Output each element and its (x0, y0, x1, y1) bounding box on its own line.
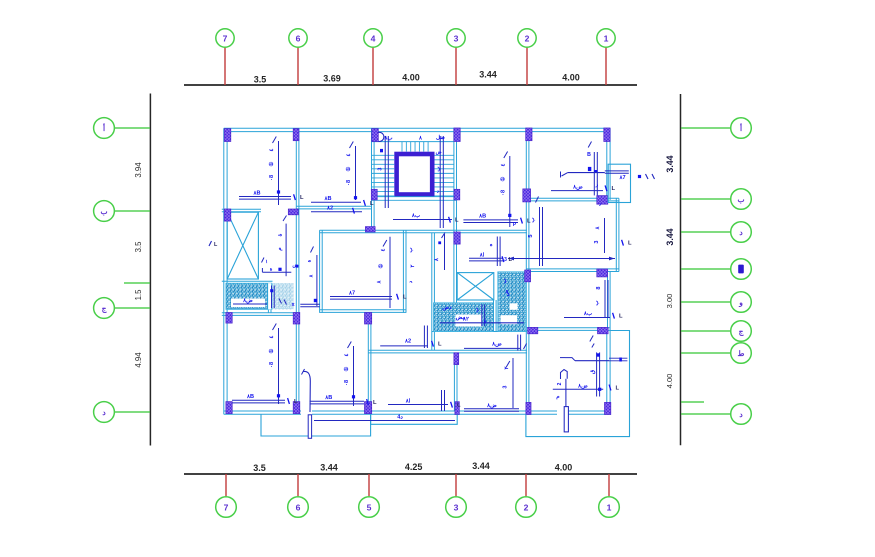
svg-text:۸ب: ۸ب (383, 136, 393, 142)
svg-text:م: م (556, 394, 560, 400)
svg-text:L: L (438, 342, 442, 348)
column C2 top (526, 128, 532, 141)
grid bubble 1 (bottom) (599, 497, 620, 518)
mid-right room bottom wall (527, 268, 619, 270)
annotation room bottom-mid2 (441, 390, 443, 411)
column stair mid-right (454, 189, 460, 200)
svg-text:ض: ض (504, 289, 510, 296)
annotation below-stair strip (311, 211, 362, 213)
svg-text:4: 4 (371, 33, 376, 43)
svg-text:٤: ٤ (381, 248, 387, 251)
svg-text:۸B: ۸B (324, 395, 332, 401)
hatched area right of shaft (498, 272, 526, 332)
svg-text:3: 3 (594, 240, 600, 243)
annotation bottom-right room (575, 360, 609, 362)
door leaf right balcony (564, 407, 568, 432)
svg-text:۸ب: ۸ب (411, 213, 421, 219)
red axis tick 7 (bottom) (225, 474, 227, 496)
green axis tick (right) (681, 268, 731, 270)
column C7 bottom (226, 402, 232, 414)
svg-text:3.44: 3.44 (479, 70, 497, 80)
svg-text:و: و (738, 298, 743, 308)
svg-text:3.44: 3.44 (320, 463, 338, 473)
grid bubble 6 (top) (289, 29, 307, 47)
annotation balcony top-right railing (605, 170, 629, 172)
grid bubble (right) (731, 292, 752, 313)
svg-text:L: L (619, 314, 623, 320)
svg-text:3: 3 (504, 257, 507, 263)
column C1 bottom (605, 402, 611, 414)
kitchen white inset left (456, 315, 483, 327)
bathroom divider band (268, 283, 272, 309)
central room bottom wall (320, 309, 406, 311)
bottom axis line (184, 473, 637, 475)
interior wall x456 lower (453, 353, 455, 412)
interior wall x369 lower (367, 313, 369, 415)
red axis tick 6 (top) (297, 48, 299, 86)
stair dim line right pair (439, 136, 441, 228)
annotation right room y271-328 (604, 280, 606, 317)
kitchen wall x433 (431, 233, 433, 350)
svg-text:L: L (612, 186, 616, 192)
annotation middle balcony dim (314, 420, 455, 422)
room TR1 slash (504, 152, 508, 159)
outside ticks left (209, 241, 212, 246)
annotation marks outside right (638, 175, 641, 178)
central room left wall (319, 230, 321, 313)
grid bubble 3 (top) (447, 29, 465, 47)
svg-text:١: ١ (265, 259, 268, 265)
svg-text:۸2: ۸2 (404, 339, 411, 345)
svg-text:٤: ٤ (344, 353, 350, 356)
short green tick (left, 1.5 level) (124, 282, 150, 284)
green axis tick (right) (681, 231, 731, 233)
room TL dim horizontal (239, 196, 291, 198)
svg-text:5: 5 (528, 234, 534, 237)
svg-text:ب: ب (100, 207, 108, 216)
svg-text:ض: ض (436, 150, 442, 156)
svg-text:ب: ب (474, 307, 480, 313)
svg-text:2: 2 (525, 33, 530, 43)
svg-text:3.69: 3.69 (323, 74, 341, 84)
room BM dim horizontal (310, 400, 365, 402)
room BM dim vertical (353, 346, 355, 406)
envelope right wall upper (606, 128, 608, 200)
svg-text:4د: 4د (397, 415, 403, 421)
envelope right wall lower (606, 331, 608, 415)
svg-text:۸ض: ۸ض (577, 383, 588, 389)
annotation hall below stair (496, 237, 498, 267)
svg-text:L: L (509, 257, 513, 263)
balcony top-right outline (608, 164, 630, 202)
room TM slash (350, 142, 354, 149)
stair entry circle (375, 132, 384, 141)
svg-text:ة: ة (278, 233, 284, 236)
annotation strip room y332-351 (464, 347, 520, 349)
svg-text:۸7: ۸7 (618, 175, 625, 181)
column C2 bottom (526, 402, 531, 414)
svg-text:1.5: 1.5 (134, 289, 143, 301)
svg-text:1: 1 (607, 503, 612, 513)
svg-text:3: 3 (378, 167, 384, 170)
red axis tick 3 (bottom) (455, 474, 457, 496)
grid bubble (left) (94, 118, 115, 139)
grid bubble (right) (731, 189, 752, 210)
svg-text:٠8: ٠8 (346, 180, 352, 186)
grid bubble (right) (731, 404, 752, 425)
annotation central room (389, 237, 391, 308)
annotation room bottom-3 (512, 358, 514, 408)
annotation corridor x296 (316, 255, 318, 306)
room BL dim horizontal (232, 399, 285, 401)
left section wall y313 (222, 312, 300, 314)
column C2 y328 (528, 327, 538, 333)
column C6 top (293, 129, 299, 141)
svg-text:B: B (587, 152, 591, 158)
column stair bottom-left (365, 227, 375, 232)
central room right wall (402, 230, 404, 313)
stair right wall x456 (453, 128, 455, 308)
room TM dim horizontal (311, 201, 361, 203)
interior wall x527 vertical (525, 128, 527, 414)
short green tick (right) (681, 401, 704, 403)
green axis tick (right) (681, 198, 731, 200)
column C5 bottom (365, 402, 372, 414)
annotation corridor strip x435-454 (444, 234, 446, 270)
svg-text:4.94: 4.94 (134, 352, 143, 368)
elevator shaft wall (397, 154, 433, 195)
svg-text:3.00: 3.00 (665, 294, 674, 309)
svg-text:2: 2 (524, 503, 529, 513)
top axis line (184, 84, 637, 86)
svg-text:م: م (277, 247, 283, 251)
svg-text:ب: ب (502, 278, 508, 284)
column C2 y270 (525, 270, 531, 282)
svg-text:3.5: 3.5 (134, 241, 143, 253)
red axis tick 4 (top) (372, 48, 374, 86)
envelope left wall (223, 128, 225, 414)
column C2 mid (523, 189, 531, 202)
svg-text:3.94: 3.94 (134, 162, 143, 178)
column C1 y199 (597, 196, 608, 205)
svg-text:۸7: ۸7 (348, 291, 355, 297)
room BL end ticks (288, 398, 290, 404)
bottom-right room top wall (526, 327, 610, 329)
stair treads right run (435, 154, 454, 156)
envelope top wall (224, 127, 610, 129)
column C6 y209 (288, 209, 298, 215)
svg-text:دض: دض (442, 305, 452, 311)
column C6 y313 (293, 313, 300, 325)
column stair top-left (372, 129, 379, 142)
red axis tick 7 (top) (224, 48, 226, 86)
svg-text:3.5: 3.5 (253, 463, 266, 473)
column C6 bottom (293, 402, 300, 414)
green axis tick (right) (681, 330, 731, 332)
stair left wall x373 (371, 128, 373, 232)
stair landing line top (372, 141, 454, 143)
room TR1 dim horizontal (463, 219, 518, 221)
kitchen divider wall x495 (493, 300, 495, 332)
X-braced shaft center (457, 273, 494, 300)
svg-text:ب: ب (436, 166, 442, 172)
hatch room divider x270 (267, 283, 269, 313)
grid bubble (left) (94, 201, 115, 222)
svg-text:۸ض: ۸ض (572, 185, 583, 191)
annotation bathroom bottom-left (233, 303, 267, 305)
balcony bottom-middle outline (371, 415, 458, 425)
svg-text:L: L (294, 399, 298, 405)
green axis tick (left) (115, 210, 151, 212)
svg-text:٠8: ٠8 (269, 362, 275, 368)
kitchen dim line (440, 322, 524, 324)
green axis tick (left) (115, 127, 151, 129)
column C7 y209 (224, 209, 231, 221)
kitchen vertical dim pair (481, 304, 483, 326)
top-left room bottom wall (222, 208, 261, 210)
svg-text:ة: ة (307, 259, 313, 262)
grid bubble 2 (top) (518, 29, 536, 47)
svg-text:4.25: 4.25 (405, 462, 423, 472)
column C7 y313 (226, 313, 232, 324)
green axis tick (right) (681, 127, 731, 129)
room TM end ticks (364, 200, 366, 206)
room BM slash (348, 342, 352, 349)
door swing bottom-middle room (304, 371, 311, 412)
svg-text:3: 3 (454, 33, 459, 43)
grid bubble (right) (731, 343, 752, 364)
right axis line (680, 94, 682, 445)
red axis tick 2 (bottom) (525, 474, 527, 496)
svg-text:٠8: ٠8 (344, 380, 350, 386)
column C1 top (604, 128, 610, 142)
svg-text:ب: ب (530, 217, 536, 223)
interior wall x298 vertical (295, 128, 297, 414)
X-braced shaft left (227, 212, 258, 279)
svg-text:۸: ۸ (308, 274, 314, 278)
column C3 y232 (454, 232, 460, 244)
column stair mid-left (371, 189, 377, 200)
annotation left corridor room (285, 224, 287, 277)
svg-text:بض: بض (456, 315, 465, 321)
svg-text:ضل: ضل (436, 134, 445, 141)
column C5 y313 (365, 313, 372, 325)
column C3 y353 (454, 353, 459, 365)
svg-text:6: 6 (296, 33, 301, 43)
svg-text:ر: ر (595, 182, 599, 188)
svg-text:3.44: 3.44 (665, 155, 675, 172)
hatched bathroom bottom-left (226, 283, 272, 309)
svg-text:۸ا: ۸ا (479, 252, 485, 259)
red axis tick 6 (bottom) (297, 474, 299, 496)
green axis tick (right) (681, 352, 731, 354)
svg-text:۸ا: ۸ا (405, 398, 411, 405)
grid bubble 3 (bottom) (446, 497, 467, 518)
svg-text:L: L (403, 295, 407, 301)
green axis tick (left) (115, 307, 151, 309)
svg-text:۸B: ۸B (246, 394, 254, 400)
red axis tick 5 (bottom) (368, 474, 370, 496)
svg-text:2: 2 (557, 382, 563, 385)
svg-text:۸2: ۸2 (326, 206, 333, 212)
svg-text:۸ض: ۸ض (242, 298, 253, 304)
svg-text:٤: ٤ (500, 163, 506, 166)
room TL dim vertical (278, 141, 280, 205)
grid bubble (right) (731, 222, 752, 243)
green axis tick (right) (681, 301, 731, 303)
svg-text:L: L (300, 195, 304, 201)
door gap bottom-right room (557, 410, 568, 415)
balcony right wrap outline (526, 331, 630, 437)
column C1 y269 (597, 269, 608, 277)
svg-text:ض: ض (292, 264, 298, 269)
svg-text:7: 7 (223, 33, 228, 43)
svg-text:۸B: ۸B (252, 190, 260, 196)
svg-text:ب: ب (594, 300, 600, 306)
grid bubble 5 (bottom) (359, 497, 380, 518)
svg-text:۸ض: ۸ض (491, 342, 502, 348)
room TR1 end ticks (521, 218, 523, 224)
svg-text:L: L (616, 385, 620, 391)
room TL slash (273, 137, 277, 144)
annotation room x371-433 y313-351 (380, 345, 428, 347)
svg-text:L: L (457, 403, 461, 409)
column C1 y328 (598, 327, 609, 333)
svg-text:٤: ٤ (269, 148, 275, 151)
annotation stair hall (393, 219, 452, 221)
red axis tick 1 (top) (605, 48, 607, 86)
svg-text:4.00: 4.00 (555, 463, 573, 473)
grid bubble (left) (94, 298, 115, 319)
svg-text:۸B: ۸B (323, 196, 331, 202)
door gap bottom-left balcony (301, 410, 312, 415)
stair treads left run (372, 154, 395, 156)
svg-text:ب: ب (737, 195, 745, 204)
svg-text:٠8: ٠8 (500, 190, 506, 196)
stair bottom landing lines (372, 196, 457, 198)
red axis tick 1 (bottom) (608, 474, 610, 496)
grid bubble 7 (bottom) (216, 497, 237, 518)
grid bubble (right) (731, 118, 752, 139)
svg-text:L: L (370, 201, 374, 207)
svg-text:7: 7 (224, 503, 229, 513)
long central wall y230 (320, 229, 527, 231)
svg-text:3.44: 3.44 (665, 228, 675, 245)
grid bubble 6 (bottom) (288, 497, 309, 518)
right wall y271-331 (607, 272, 609, 332)
svg-text:4.00: 4.00 (402, 73, 420, 83)
green axis tick (left) (115, 411, 151, 413)
annotation room top-right-2 (593, 152, 595, 195)
grid bubble 7 (top) (216, 29, 234, 47)
room BL slash (273, 324, 277, 331)
column C7 top (224, 129, 231, 142)
svg-text:۸B: ۸B (478, 214, 486, 220)
hatched kitchen area center (434, 303, 494, 332)
svg-text:۸ب: ۸ب (583, 311, 593, 317)
svg-text:4.00: 4.00 (665, 374, 674, 389)
annotation mid-right room (508, 258, 615, 260)
svg-text:8: 8 (596, 286, 602, 289)
svg-text:4.00: 4.00 (562, 73, 580, 83)
column C3 bottom (455, 402, 459, 415)
svg-text:ب: ب (408, 247, 414, 253)
long wall y351 (368, 349, 527, 351)
svg-text:3: 3 (503, 385, 509, 388)
balcony bottom-left outline (261, 415, 371, 437)
svg-text:1: 1 (604, 33, 609, 43)
stair dim line left pair (384, 136, 386, 208)
svg-text:5: 5 (367, 503, 372, 513)
column C3 top (454, 128, 460, 142)
svg-text:ه: ه (488, 243, 494, 246)
kitchen white inset right (501, 315, 518, 324)
envelope bottom wall (224, 410, 611, 412)
grid bubble 2 (bottom) (516, 497, 537, 518)
room BM end ticks (367, 399, 369, 405)
red axis tick 3 (top) (455, 48, 457, 86)
grid bubble 1 (top) (597, 29, 615, 47)
svg-text:٠8: ٠8 (269, 175, 275, 181)
grid bubble (left) (94, 402, 115, 423)
svg-text:۸ض: ۸ض (486, 403, 497, 409)
svg-text:3.5: 3.5 (254, 74, 267, 84)
svg-text:L: L (455, 218, 459, 224)
red axis tick 2 (top) (526, 48, 528, 86)
room BL dim vertical (278, 328, 280, 404)
left axis line (149, 94, 151, 446)
hatch room top edge y281 (222, 280, 273, 282)
light hatch right of divider (273, 283, 294, 309)
svg-text:٤: ٤ (346, 153, 352, 156)
room TL end ticks (294, 194, 296, 200)
svg-text:3: 3 (454, 503, 459, 513)
svg-text:6: 6 (296, 503, 301, 513)
svg-text:L: L (373, 400, 377, 406)
room TR1 dim vertical (509, 156, 511, 227)
door leaf left balcony (308, 415, 311, 439)
stair treads top run (401, 142, 403, 152)
svg-text:ة: ة (270, 266, 273, 272)
green axis tick (right) (681, 413, 731, 415)
room TM dim vertical (355, 146, 357, 200)
wall y199 right section (526, 197, 619, 199)
grid bubble (right) (731, 259, 752, 280)
svg-text:ط: ط (738, 349, 746, 358)
wall below top-middle room (296, 205, 371, 207)
svg-text:3.44: 3.44 (472, 461, 490, 471)
kitchen bottom edge y331 (432, 331, 527, 333)
svg-text:٤: ٤ (269, 335, 275, 338)
grid bubble (right) (731, 321, 752, 342)
grid bubble 4 (top) (364, 29, 382, 47)
svg-text:L: L (628, 241, 632, 247)
svg-text:ق: ق (590, 369, 596, 374)
mid-right room right wall (615, 198, 617, 271)
